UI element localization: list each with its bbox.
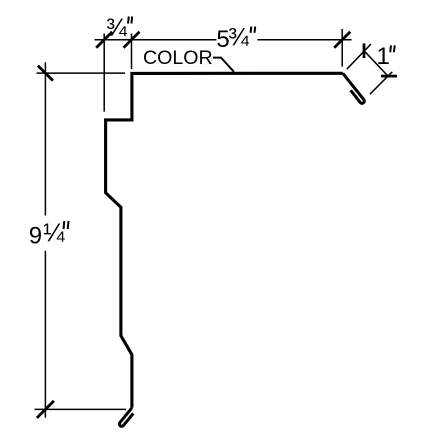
- svg-text:¾: ¾: [228, 24, 250, 52]
- extension line top of 9 1/4": [37, 72, 126, 74]
- dimension line horizontal, right segment: [257, 39, 351, 41]
- extension line bottom of 9 1/4": [35, 408, 127, 410]
- tick at lower end of 1": [381, 75, 397, 78]
- svg-text:COLOR: COLOR: [143, 47, 213, 69]
- dimension line vertical (9 1/4"), lower segment: [44, 251, 46, 418]
- inch marks of 9 1/4": [64, 221, 69, 229]
- tick at upper end of 1": [363, 44, 366, 59]
- svg-text:1: 1: [377, 43, 390, 70]
- extension line left of 3/4": [103, 34, 105, 112]
- tick at right end of 5 3/4": [334, 32, 350, 48]
- profile outline (flashing cross-section): [106, 73, 343, 408]
- leader from COLOR to profile top: [213, 58, 234, 72]
- inch marks of 5 3/4": [251, 27, 256, 33]
- svg-text:¾: ¾: [106, 14, 128, 42]
- inch marks of 3/4": [128, 17, 132, 24]
- profile top hem (drip edge fold): [343, 73, 365, 103]
- dimension line horizontal (3/4" and 5 3/4"), left segment: [95, 39, 217, 41]
- extension line upper of 1" (perpendicular to drip face): [347, 44, 371, 69]
- dimension line vertical (9 1/4"), upper segment: [44, 62, 46, 215]
- tick at top end of 9 1/4": [38, 66, 53, 81]
- svg-text:¼: ¼: [43, 220, 65, 248]
- profile bottom hem (kick fold): [119, 408, 133, 427]
- extension line right of 5 3/4": [341, 29, 343, 67]
- tick at right end of 3/4": [124, 32, 140, 48]
- svg-text:9: 9: [29, 223, 42, 250]
- inch marks of 1": [390, 45, 395, 52]
- extension line lower of 1": [370, 72, 392, 94]
- tick at left end of 3/4": [96, 32, 112, 48]
- tick at bottom end of 9 1/4": [37, 401, 54, 418]
- extension line right of 3/4": [131, 34, 133, 70]
- dimension line of 1" (parallel to drip face): [364, 51, 388, 76]
